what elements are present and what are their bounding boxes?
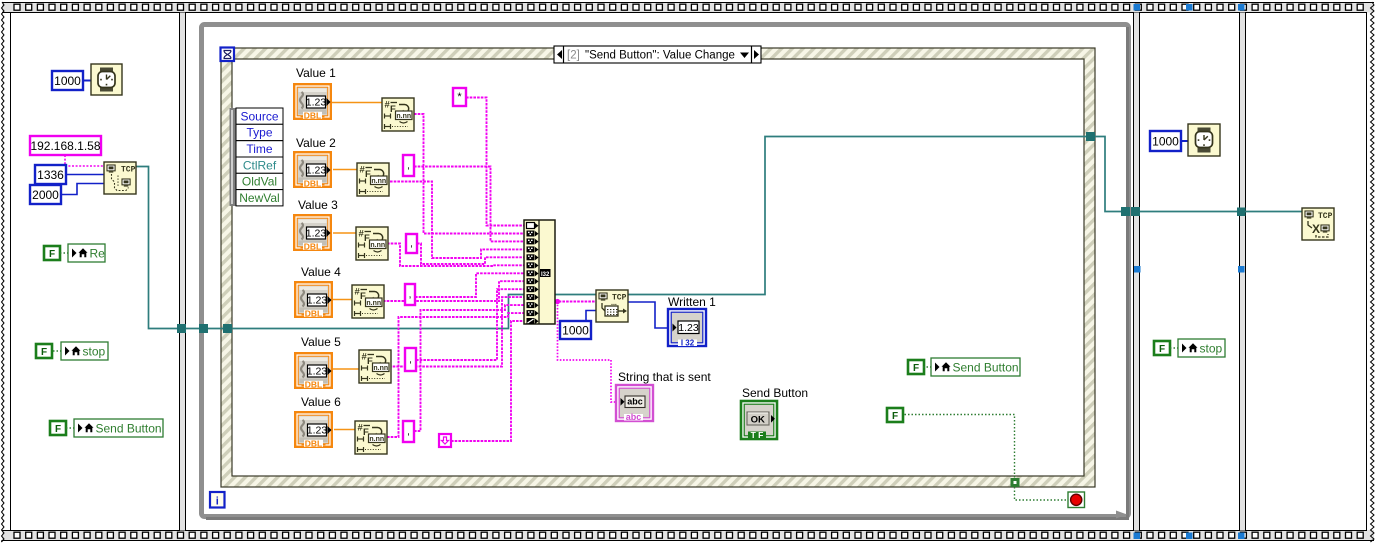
svg-text:DBL: DBL (305, 438, 322, 448)
wire Value5 string to concat (389, 297, 524, 366)
svg-text:TCP: TCP (1318, 212, 1333, 221)
numeric constant 1000 (frame 3) (1150, 131, 1181, 151)
boolean constant F (loop stop) (887, 408, 903, 422)
svg-text:DBL: DBL (305, 308, 322, 318)
numeric control Value 5 (DBL) (295, 353, 332, 389)
svg-text:Value 4: Value 4 (301, 265, 341, 279)
while loop iteration terminal i (210, 492, 225, 508)
wire tunnel to stop terminal (1015, 487, 1069, 500)
string constant * (453, 88, 466, 106)
wire Value 1 to converter (332, 102, 382, 104)
svg-text:Value 5: Value 5 (301, 335, 341, 349)
svg-text:DBL: DBL (304, 241, 321, 251)
label Send Button (742, 386, 808, 400)
svg-text:"Send Button": Value Change: "Send Button": Value Change (585, 50, 735, 62)
svg-text:n.nn: n.nn (396, 113, 411, 120)
wire * to concat (466, 98, 524, 226)
wire 1000 to wait (83, 80, 91, 82)
string constant comma 5 (403, 421, 414, 442)
svg-text:n.nn: n.nn (371, 178, 386, 185)
svg-text:1.23: 1.23 (307, 366, 328, 378)
wire Value1 string to concat (414, 114, 524, 234)
svg-text:Send Button: Send Button (96, 421, 162, 435)
sequence tunnel blue square 4 (1134, 533, 1141, 540)
wire comma1 to concat (414, 167, 524, 242)
tunnel teal event right (1086, 132, 1095, 141)
svg-text:F: F (1159, 344, 1165, 355)
wire 1000 to TCP write (586, 311, 596, 322)
wire Value 4 to converter (332, 299, 352, 301)
Number To Fractional String 4 (352, 285, 384, 318)
wire Value6 string to concat (387, 313, 524, 437)
svg-text:T F: T F (751, 430, 764, 440)
string constant comma 4 (405, 348, 416, 371)
frame divider 3 (1240, 13, 1246, 531)
wire comma5 to concat (414, 305, 524, 431)
event structure header tab (554, 46, 761, 63)
local variable stop (61, 342, 108, 360)
local variable Send Button (74, 419, 163, 437)
svg-text:Source: Source (240, 109, 278, 123)
svg-text:NewVal: NewVal (239, 191, 279, 205)
string constant comma 3 (405, 284, 415, 305)
boolean constant F (Send Button frame1) (50, 421, 66, 435)
wire comma4 to concat (416, 289, 524, 360)
Number To Fractional String 3 (356, 227, 388, 260)
Number To Fractional String 2 (357, 163, 389, 196)
svg-text:X: X (1312, 222, 1320, 236)
wire F to stop local frame3 (1170, 347, 1178, 349)
svg-text:Re: Re (90, 246, 106, 260)
wait (ms) function frame 3 (1188, 124, 1220, 156)
svg-text:1000: 1000 (1152, 134, 1179, 148)
Number To Fractional String 6 (355, 421, 387, 454)
tunnel teal divider2 (1131, 207, 1140, 216)
svg-text:Value 2: Value 2 (296, 136, 336, 150)
numeric constant 1336 (35, 165, 66, 184)
wire Value 2 to converter (333, 169, 357, 171)
svg-text:Value 1: Value 1 (296, 66, 336, 80)
tunnel teal divider3 (1237, 208, 1246, 217)
tunnel teal on event structure left (223, 324, 232, 333)
Concatenate Strings (524, 220, 555, 324)
numeric control Value 2 (DBL) (294, 152, 331, 188)
svg-text:n.nn: n.nn (366, 300, 381, 307)
event data node (230, 108, 284, 206)
svg-text:DBL: DBL (305, 379, 322, 389)
svg-text:1000: 1000 (54, 74, 81, 88)
svg-text:F: F (892, 411, 898, 422)
svg-text:Send Button: Send Button (742, 386, 808, 400)
event structure timeout terminal (hourglass) (221, 48, 235, 62)
wire Value3 string to concat (387, 244, 524, 267)
svg-text:Value 6: Value 6 (301, 395, 341, 409)
svg-text:i: i (216, 496, 219, 508)
svg-text:DBL: DBL (304, 110, 321, 120)
svg-text:,: , (407, 161, 410, 172)
sequence tunnel blue square 1 (1134, 4, 1141, 11)
svg-text:,: , (407, 427, 410, 438)
svg-text:F: F (55, 424, 61, 435)
svg-text:192.168.1.58: 192.168.1.58 (30, 139, 100, 153)
indicator String that is sent (616, 385, 653, 422)
wire bytes written to indicator (628, 302, 668, 328)
svg-text:n.nn: n.nn (369, 436, 384, 443)
label Value 6 (301, 395, 341, 409)
string constant 192.168.1.58 (30, 136, 101, 155)
svg-text:F: F (41, 347, 47, 358)
svg-text:Type: Type (246, 126, 272, 140)
while loop border (202, 25, 1129, 519)
label Value 5 (301, 335, 341, 349)
sequence tunnel blue square 2 (1186, 4, 1193, 11)
svg-text:,: , (409, 355, 412, 366)
svg-text:2000: 2000 (32, 188, 59, 202)
Number To Fractional String 5 (359, 350, 391, 383)
numeric control Value 1 (DBL) (294, 84, 331, 120)
TCP Write (596, 290, 628, 322)
numeric control Value 3 (DBL) (294, 215, 331, 251)
sequence tunnel blue square 3 (1238, 4, 1245, 11)
wire F to event tunnel (dotted) (901, 415, 1015, 479)
string constant comma 2 (406, 234, 417, 253)
svg-text:,: , (410, 239, 413, 250)
while loop stop terminal (1068, 492, 1085, 508)
svg-text:1.23: 1.23 (307, 425, 328, 437)
boolean constant F (send button local) (908, 360, 924, 374)
wire ip to tcp open (dotted magenta) (65, 155, 104, 166)
frame divider 2 (1134, 13, 1140, 531)
label Value 1 (296, 66, 336, 80)
svg-text:,: , (409, 290, 412, 301)
wire 1000 to wait frame3 (1181, 140, 1188, 142)
wire 2000 to tcp open (60, 184, 104, 195)
svg-text:OK: OK (751, 415, 765, 426)
svg-text:Send Button: Send Button (953, 360, 1019, 374)
TCP Open Connection (104, 162, 136, 194)
wire comma3 to concat (415, 273, 524, 297)
local variable stop frame3 (1178, 339, 1225, 357)
svg-text:1.23: 1.23 (306, 97, 327, 109)
svg-text:abc: abc (627, 397, 643, 407)
wire F to stop local (53, 350, 61, 352)
svg-text:[2]: [2] (567, 50, 580, 62)
tunnel teal on while loop left (199, 324, 208, 333)
label Value 2 (296, 136, 336, 150)
svg-text:1000: 1000 (562, 323, 589, 337)
svg-text:1.23: 1.23 (307, 295, 328, 307)
svg-text:1336: 1336 (37, 168, 64, 182)
wire Value4 string to concat (383, 281, 524, 301)
svg-text:stop: stop (83, 344, 106, 358)
frame divider 1 (180, 13, 186, 531)
local variable Send Button 2 (931, 358, 1020, 376)
svg-text:abc: abc (626, 412, 642, 422)
label Value 3 (298, 198, 338, 212)
numeric constant 1000 (timeout) (560, 321, 591, 339)
control Send Button (boolean OK) (741, 401, 777, 440)
Number To Fractional String 1 (382, 98, 414, 131)
wire concatenated string to TCP write (555, 299, 596, 304)
svg-text:F: F (49, 249, 55, 260)
wire concatenated string to indicator (558, 302, 617, 403)
sequence tunnel blue square 5 (1186, 533, 1193, 540)
wire Value2 string to concat (390, 182, 524, 259)
svg-text:I 32: I 32 (681, 339, 695, 348)
wire TCP connection across frame 3 (1140, 211, 1237, 213)
boolean constant F (stop frame3) (1154, 341, 1170, 355)
svg-text:OldVal: OldVal (242, 175, 277, 189)
svg-text:F: F (913, 363, 919, 374)
boolean constant F (Re) (44, 246, 60, 260)
svg-text:n.nn: n.nn (370, 242, 385, 249)
sequence local blue divider2 (1134, 266, 1141, 273)
boolean constant F (stop frame1) (36, 344, 52, 358)
wire Value 6 to converter (334, 429, 355, 431)
TCP Close Connection (1302, 208, 1334, 240)
local variable Re (68, 244, 105, 262)
svg-text:1.23: 1.23 (306, 165, 327, 177)
svg-text:*: * (457, 91, 462, 103)
wire TCP connection event to while border (1095, 137, 1121, 212)
wire Value 5 to converter (333, 368, 359, 370)
tunnel teal on divider1 (177, 324, 186, 333)
wait (ms) function frame 1 (91, 64, 122, 95)
svg-text:String that is sent: String that is sent (618, 370, 711, 384)
wire Value 3 to converter (333, 232, 356, 234)
svg-text:1.23: 1.23 (306, 228, 327, 240)
svg-text:Time: Time (246, 142, 273, 156)
numeric control Value 6 (DBL) (295, 412, 332, 448)
svg-text:Value 3: Value 3 (298, 198, 338, 212)
svg-text:Written 1: Written 1 (668, 295, 716, 309)
svg-text:stop: stop (1200, 341, 1223, 355)
string constant end-of-line (439, 434, 451, 447)
wire comma2 to concat (417, 244, 524, 265)
tunnel teal while loop right (1121, 207, 1130, 216)
string constant comma 1 (403, 155, 414, 176)
wire F to Send Button local (66, 427, 74, 429)
wire F to Send Button local 2 (923, 366, 931, 368)
svg-text:CtlRef: CtlRef (243, 158, 277, 172)
wire TCP connection frame1 to TCP write (teal) (136, 167, 596, 329)
numeric control Value 4 (DBL) (295, 282, 332, 318)
numeric constant 1000 (frame 1 wait) (52, 71, 83, 90)
label Value 4 (301, 265, 341, 279)
wire TCP connection out of TCP write to event tunnel (628, 137, 1086, 295)
wire TCP connection to TCP close (1246, 211, 1303, 213)
svg-text:1.23: 1.23 (678, 322, 699, 334)
tunnel boolean event bottom (1011, 478, 1020, 487)
sequence local blue divider3 (1238, 266, 1245, 273)
label Written 1 (668, 295, 716, 309)
wire 1336 to tcp open (66, 174, 104, 176)
numeric constant 2000 (30, 185, 61, 204)
svg-text:I32: I32 (541, 272, 550, 278)
sequence tunnel blue square 6 (1238, 533, 1245, 540)
svg-text:TCP: TCP (121, 166, 136, 175)
event structure border (hatched) (221, 48, 1095, 487)
svg-text:DBL: DBL (304, 178, 321, 188)
svg-text:n.nn: n.nn (373, 365, 388, 372)
wire F to Re local (60, 252, 68, 254)
wire eol to concat (451, 321, 524, 441)
label String that is sent (618, 370, 711, 384)
indicator Written 1 (I32) (668, 309, 706, 348)
